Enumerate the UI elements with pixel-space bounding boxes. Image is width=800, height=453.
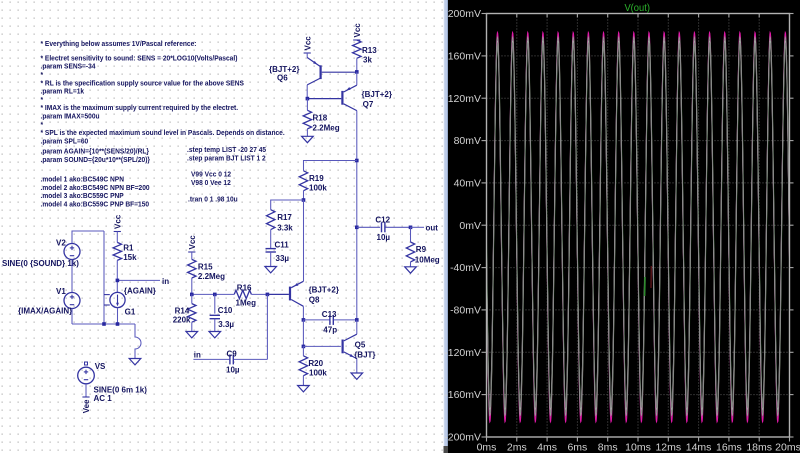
Vee flag (82, 396, 89, 398)
svg-text:* Everything below assumes 1V/: * Everything below assumes 1V/Pascal ref… (41, 39, 197, 48)
svg-text:{BJT+2}: {BJT+2} (309, 286, 339, 295)
svg-text:1Meg: 1Meg (236, 299, 257, 308)
svg-text:R14: R14 (175, 307, 190, 316)
capacitor C9 (229, 354, 231, 364)
svg-text:2.2Meg: 2.2Meg (198, 272, 225, 281)
resistor R14 (188, 304, 196, 323)
wire main rail (356, 111, 358, 320)
svg-text:0ms: 0ms (477, 442, 497, 453)
junction (355, 318, 359, 322)
trace V(out) step gray 2 (487, 39, 790, 412)
vcvs-controlled current source G1 (110, 292, 125, 307)
wire R13 down (356, 58, 358, 72)
plot frame (487, 14, 790, 438)
svg-text:47p: 47p (323, 326, 337, 335)
junction (266, 293, 270, 297)
waveform panel background (448, 0, 800, 453)
resistor R16 (234, 290, 251, 298)
svg-text:Vcc: Vcc (188, 235, 197, 250)
svg-text:Q8: Q8 (309, 296, 320, 305)
svg-text:33µ: 33µ (276, 254, 290, 263)
svg-text:.param SPL=60: .param SPL=60 (41, 136, 89, 145)
ground (298, 386, 310, 392)
wire rail to R19 (304, 161, 357, 171)
wire R15 down (191, 278, 193, 294)
wire C11 to gnd (270, 252, 272, 267)
svg-text:V(out): V(out) (624, 2, 650, 14)
svg-text:in: in (162, 277, 169, 286)
wire to R17 (271, 200, 304, 210)
svg-text:V2: V2 (56, 239, 66, 248)
resistor R9 (406, 242, 414, 262)
svg-text:.param SOUND={20u*10**(SPL/20): .param SOUND={20u*10**(SPL/20)} (41, 155, 151, 164)
junction (190, 293, 194, 297)
svg-text:R20: R20 (308, 359, 323, 368)
voltage source V2 (64, 244, 80, 260)
svg-text:8ms: 8ms (598, 442, 618, 453)
transistor Q8 PNP (289, 287, 291, 301)
svg-text:R16: R16 (237, 284, 252, 293)
svg-text:R18: R18 (313, 114, 328, 123)
wire to R18 (306, 99, 308, 111)
wire out stub (411, 226, 425, 228)
svg-text:10ms: 10ms (625, 442, 651, 453)
resistor R20 (299, 356, 307, 376)
wire C12 to out (386, 226, 411, 228)
wire to C13 (303, 319, 330, 321)
voltage source V5 (85, 362, 88, 365)
svg-text:.param IMAX=500u: .param IMAX=500u (41, 112, 100, 121)
ground (351, 373, 363, 379)
axis ticks (482, 14, 794, 442)
G1 control pins (104, 294, 110, 296)
resistor R18 (303, 110, 311, 129)
svg-text:20ms: 20ms (775, 442, 800, 453)
load bump element (135, 324, 141, 359)
junction (302, 345, 306, 349)
svg-text:14ms: 14ms (686, 442, 712, 453)
svg-text:R17: R17 (277, 213, 292, 222)
svg-text:-120mV: -120mV (444, 347, 481, 359)
svg-text:200mV: 200mV (448, 8, 481, 20)
svg-text:AC 1: AC 1 (94, 394, 113, 403)
junction (355, 70, 359, 74)
wire Q7 emitter up (356, 72, 358, 85)
svg-text:.param SENS=-34: .param SENS=-34 (41, 62, 96, 71)
voltage source V1 (64, 293, 80, 309)
svg-text:10Meg: 10Meg (415, 256, 440, 265)
svg-text:R1: R1 (123, 244, 134, 253)
Vcc flag at R13 (353, 39, 360, 41)
wire R1 to G1 (116, 260, 118, 292)
svg-text:Q5: Q5 (355, 341, 366, 350)
wire to R9 (410, 227, 412, 242)
wire R14 to gnd (191, 322, 193, 331)
svg-text:{AGAIN}: {AGAIN} (124, 287, 156, 296)
svg-text:16ms: 16ms (716, 442, 742, 453)
resistor R13 (353, 40, 361, 58)
ground (129, 359, 141, 365)
capacitor C11 (266, 248, 276, 250)
svg-text:3k: 3k (363, 56, 372, 65)
junction (355, 159, 359, 163)
transistor Q7 PNP (341, 91, 343, 105)
svg-text:220k: 220k (173, 315, 191, 324)
resistor R1 (113, 242, 121, 260)
junction (213, 293, 217, 297)
svg-text:Vcc: Vcc (303, 36, 312, 51)
svg-text:2.2Meg: 2.2Meg (313, 124, 340, 133)
trace V(out) step green (487, 40, 790, 414)
wire in to C9 (193, 358, 229, 360)
trace V(out) step gray 3 (487, 41, 790, 410)
ground (186, 332, 198, 338)
transistor Q6 PNP (306, 53, 308, 58)
junction (116, 322, 120, 326)
svg-text:SINE(0 {SOUND} 1k): SINE(0 {SOUND} 1k) (2, 259, 79, 268)
svg-text:Vee: Vee (82, 399, 91, 413)
svg-text:-80mV: -80mV (450, 305, 481, 317)
Vcc flag at R15 (188, 251, 195, 253)
junction (302, 318, 306, 322)
wire C13 right (334, 319, 357, 321)
resistor R15 (188, 259, 196, 278)
svg-text:{BJT}: {BJT} (354, 351, 375, 360)
svg-text:out: out (426, 224, 439, 233)
svg-text:10µ: 10µ (377, 233, 391, 242)
wire R9 to gnd (410, 262, 412, 267)
wire bottom rail (72, 323, 135, 325)
svg-text:3.3k: 3.3k (277, 224, 293, 233)
wire Q8 collector down (302, 306, 304, 320)
wire to R20 (302, 346, 304, 355)
svg-text:0mV: 0mV (459, 220, 481, 232)
svg-text:-40mV: -40mV (450, 262, 481, 274)
svg-text:R9: R9 (416, 245, 427, 254)
trace V(out) step magenta (487, 33, 790, 422)
svg-text:{IMAX/AGAIN}: {IMAX/AGAIN} (18, 307, 72, 316)
wire to Q5 base (303, 345, 341, 347)
svg-text:Q7: Q7 (363, 100, 374, 109)
capacitor C10 (210, 314, 220, 316)
svg-text:100k: 100k (309, 183, 327, 192)
svg-text:40mV: 40mV (454, 178, 481, 190)
svg-text:V1: V1 (56, 287, 66, 296)
svg-text:Vcc: Vcc (353, 23, 362, 38)
wire control rail (103, 231, 105, 324)
Vcc flag at Q6 (304, 52, 311, 54)
svg-text:10µ: 10µ (226, 366, 240, 375)
wire R19 node to Q8 emitter (303, 200, 305, 281)
svg-text:V98 0 Vee 12: V98 0 Vee 12 (191, 178, 231, 187)
window splitter strip (444, 0, 449, 446)
wire rail to C12 (357, 226, 380, 228)
svg-text:12ms: 12ms (655, 442, 681, 453)
svg-text:120mV: 120mV (448, 93, 481, 105)
wire down to base row (302, 320, 304, 347)
junction (102, 322, 106, 326)
svg-text:100k: 100k (309, 369, 327, 378)
wire R17 to C11 (270, 230, 272, 249)
wire R18 to gnd (306, 129, 308, 136)
wire Vcc to R1 (116, 232, 118, 243)
Vcc flag at R1 (114, 231, 121, 233)
junction (302, 198, 306, 202)
svg-text:VS: VS (95, 362, 106, 371)
wire Q5 collector up (356, 320, 358, 334)
junction (355, 226, 359, 230)
junction (409, 226, 413, 230)
wire R20 to gnd (302, 376, 304, 386)
svg-text:C13: C13 (322, 310, 337, 319)
svg-text:.tran 0 1 .98 10u: .tran 0 1 .98 10u (188, 195, 238, 204)
ground (209, 332, 221, 338)
svg-text:.param RL=1k: .param RL=1k (41, 87, 85, 96)
resistor R19 (299, 171, 307, 191)
svg-text:C9: C9 (227, 350, 238, 359)
wire Q6 collector down (306, 85, 308, 99)
wire V5 to Vee (85, 384, 87, 397)
svg-text:C11: C11 (275, 241, 290, 250)
plot grid (487, 14, 790, 438)
wire to C10 (214, 294, 216, 313)
wire G1 to rail (117, 308, 119, 324)
svg-text:3.3µ: 3.3µ (218, 320, 234, 329)
wire Vcc to R15 (191, 252, 193, 259)
svg-text:R15: R15 (198, 263, 213, 272)
svg-text:-160mV: -160mV (444, 389, 481, 401)
wire R19 down (303, 191, 305, 200)
wire bias node (192, 293, 234, 295)
wire Q5 emitter down (356, 359, 358, 373)
wire to in label (118, 279, 161, 281)
wire R16 right (251, 293, 267, 295)
resistor R17 (267, 210, 275, 230)
svg-text:R19: R19 (309, 174, 324, 183)
svg-text:160mV: 160mV (448, 51, 481, 63)
svg-text:{BJT+2}: {BJT+2} (362, 90, 392, 99)
svg-text:-200mV: -200mV (444, 432, 481, 444)
svg-text:.model 4 ako:BC559C PNP BF=150: .model 4 ako:BC559C PNP BF=150 (41, 199, 150, 208)
wire C10 to gnd (214, 319, 216, 332)
transistor Q5 NPN (342, 340, 344, 354)
svg-text:R13: R13 (362, 46, 377, 55)
svg-text:.step param BJT LIST 1 2: .step param BJT LIST 1 2 (187, 153, 266, 162)
ground (302, 136, 314, 142)
svg-text:Q6: Q6 (277, 74, 288, 83)
capacitor C12 (381, 222, 383, 232)
trace V(out) step gray 4 (487, 43, 790, 407)
svg-text:in: in (194, 351, 201, 360)
junction (306, 97, 310, 101)
wire V2 top to control rail (72, 231, 104, 244)
svg-text:G1: G1 (125, 308, 136, 317)
svg-text:15k: 15k (123, 253, 137, 262)
wire riser to R16 node (266, 294, 268, 359)
wire to R14 (191, 294, 193, 303)
trace dark red divergence fleck (650, 266, 652, 288)
wire V2-V1 (71, 260, 73, 293)
wire V1 bottom (71, 309, 73, 325)
ground (405, 267, 417, 273)
svg-text:Vcc: Vcc (113, 214, 122, 229)
trace V(out) step gray 1 (487, 38, 790, 416)
svg-text:C10: C10 (218, 306, 233, 315)
ground (265, 267, 277, 273)
svg-text:18ms: 18ms (746, 442, 772, 453)
wire C9 right (234, 358, 268, 360)
svg-text:6ms: 6ms (567, 442, 587, 453)
svg-text:4ms: 4ms (537, 442, 557, 453)
svg-text:80mV: 80mV (454, 135, 481, 147)
svg-text:C12: C12 (375, 216, 390, 225)
trace green divergence fleck (644, 277, 646, 296)
svg-text:2ms: 2ms (507, 442, 527, 453)
capacitor C13 (329, 315, 331, 325)
